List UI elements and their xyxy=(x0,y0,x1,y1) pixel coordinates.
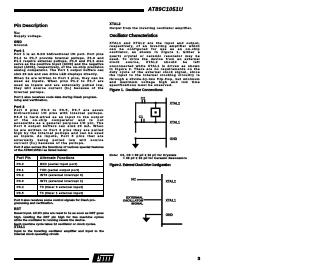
capacitor C2 xyxy=(141,96,146,103)
node left-rail XTAL1 junction xyxy=(134,121,136,123)
capacitor C1 xyxy=(139,115,145,123)
page number xyxy=(198,256,201,261)
top rule bar xyxy=(14,9,144,12)
Atmel logo xyxy=(90,253,116,264)
svg-text:XTAL1: XTAL1 xyxy=(166,199,176,203)
title AT89C1051U xyxy=(148,7,183,13)
ground xyxy=(142,218,150,223)
heading Oscillator Characteristics xyxy=(110,34,158,39)
pin function table xyxy=(14,154,104,197)
node XTAL1 junction xyxy=(154,121,156,123)
ground xyxy=(132,138,139,148)
heading Pin Description xyxy=(14,24,48,29)
svg-text:XTAL2: XTAL2 xyxy=(170,101,180,105)
note under figure 1 xyxy=(110,154,187,161)
wire left rail xyxy=(135,102,136,132)
crystal XTAL xyxy=(151,103,160,122)
svg-text:XTAL2: XTAL2 xyxy=(166,180,176,184)
wire XTAL1 (middle) xyxy=(135,122,167,123)
bottom rule bar xyxy=(14,258,89,261)
external oscillator signal source xyxy=(123,195,144,205)
wire XTAL2 (top) xyxy=(135,102,167,103)
chip edge line xyxy=(166,98,167,148)
chip bottom edge xyxy=(161,223,182,225)
svg-text:GND: GND xyxy=(170,137,178,141)
caption Figure 1 xyxy=(110,89,163,93)
svg-text:C1: C1 xyxy=(139,115,143,119)
wire GND stub xyxy=(145,214,161,215)
svg-text:XTAL1: XTAL1 xyxy=(170,121,180,125)
svg-text:GND: GND xyxy=(166,213,174,217)
chip edge line xyxy=(161,174,163,227)
wire GND (bottom) xyxy=(135,138,167,139)
wire GND elbow down xyxy=(145,214,146,218)
svg-text:NC: NC xyxy=(131,178,136,182)
wire NC to XTAL2 xyxy=(137,179,161,180)
svg-text:SIGNAL: SIGNAL xyxy=(131,202,143,206)
caption Figure 2 xyxy=(110,164,171,168)
wire external signal to XTAL1 xyxy=(144,199,162,200)
node left-rail GND junction xyxy=(134,137,136,139)
node XTAL2 junction xyxy=(154,102,156,104)
